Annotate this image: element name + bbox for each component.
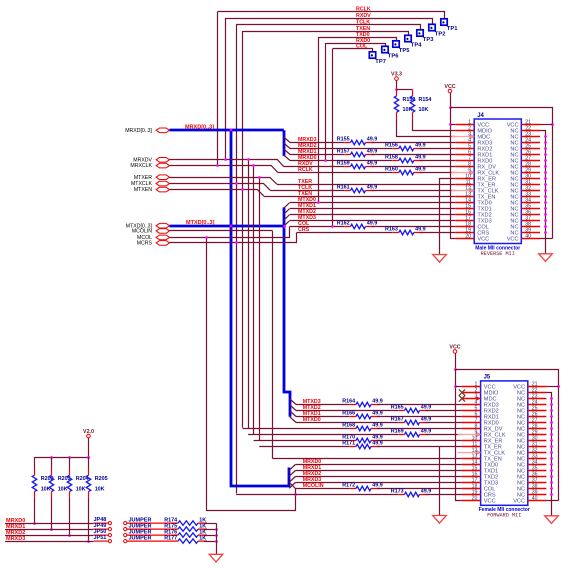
svg-text:MTXER: MTXER [134,175,152,181]
pin 9 clock stub [451,172,474,174]
wire MCRS jog up to CRS row [170,233,297,243]
svg-text:40: 40 [532,496,538,502]
wire row pin13 to stub [264,196,456,198]
junction VCC female pin21 [557,385,560,388]
resistor R168 49.9 [342,423,383,431]
bus junction 2 [230,225,233,228]
pin 29 stub [521,172,540,174]
wire female row pin11 [259,446,350,448]
svg-text:49.9: 49.9 [415,227,426,233]
pin 2 stub [455,130,474,132]
wire female row pin10 to stub [377,440,462,442]
wire VCC female to pin1/pin20 [456,369,462,501]
junction jumper gnd net [215,534,218,537]
pin 18 stub [455,226,474,228]
pin 28 stub [528,428,547,430]
svg-text:TP6: TP6 [388,53,399,59]
resistor R152 10K [394,90,415,119]
svg-text:MCOLIN: MCOLIN [132,229,152,235]
wire pin21 to VCC loop [540,124,553,126]
junction NC pin 36 [544,213,547,216]
test point TP2 [429,24,446,37]
wire MTXCLK to TCLK row [170,184,271,191]
svg-text:TP1: TP1 [447,26,458,32]
svg-text:R169: R169 [391,429,404,435]
pin 20 stub [455,238,474,240]
resistor R165 49.9 [391,405,432,413]
port MRXCLK [156,163,169,168]
junction MRXD0 row [33,522,36,525]
wire V2.0 down [88,438,90,457]
svg-text:TP4: TP4 [411,42,422,48]
test point TP1 [441,19,458,32]
wire row pin4 to stub [372,142,456,144]
svg-text:MCOLIN: MCOLIN [303,483,324,489]
pin 34 stub [528,464,547,466]
wire female row pin16 to stub [295,476,461,478]
wire R205 to MRXD3 row [88,498,90,541]
junction NC female pin 23 [550,397,553,400]
pin 35 stub [521,208,540,210]
wire female row pin9 [248,434,398,436]
svg-text:FORWARD MII: FORWARD MII [487,513,521,519]
junction NC pin 35 [544,207,547,210]
port MTXER [156,175,169,180]
wire NC bus female right [546,393,551,516]
svg-text:R156: R156 [385,143,398,149]
bus entry female MTXD2 [290,405,296,411]
wire R202 to MRXD0 row [34,498,36,523]
pin 36 stub [528,476,547,478]
wire R176 to gnd net [204,535,216,537]
wire R154 to MDIO pin2 [413,119,456,131]
pin 37 stub [521,220,540,222]
wire MCOL branch down to R173 row and MCOLIN row [207,237,296,510]
pin 26 stub [521,154,540,156]
wire female TX_ER to ground [439,447,441,516]
pin 20 stub [462,500,481,502]
svg-text:10K: 10K [58,486,68,492]
junction NC female pin 37 [550,481,553,484]
svg-text:49.9: 49.9 [372,441,383,447]
junction NC female pin 36 [550,475,553,478]
wire to pin40 stub [540,238,553,240]
wire rail to R205 [88,457,90,469]
wire jumper net to ground [216,523,218,554]
svg-text:RCLK: RCLK [298,167,313,173]
port MCRS [156,241,169,246]
svg-text:R172: R172 [342,483,355,489]
junction NC pin 32 [544,189,547,192]
wire row pin5 [290,148,393,150]
port MTXCLK [156,181,169,186]
pin 3 stub [462,398,481,400]
pin 4 stub [462,404,481,406]
junction TXD0 row [317,201,320,204]
ground male left [433,255,447,263]
resistor R155 49.9 [337,137,378,145]
svg-text:R177: R177 [164,535,177,541]
wire R204 to MRXD2 row [69,498,71,535]
svg-text:TP7: TP7 [375,59,386,65]
wire MCOL jog up to COL row [170,227,290,238]
pin 15 stub [455,208,474,210]
svg-text:R162: R162 [337,221,350,227]
junction NC female pin 27 [550,421,553,424]
power V3.3 [391,72,402,81]
ground female right [545,516,559,524]
wire row pin4 [290,142,344,144]
resistor R166 49.9 [342,411,383,419]
svg-text:VCC: VCC [477,237,489,243]
wire TXD0 to TP5 [318,38,396,42]
wire MRXD1 row bottom [5,529,93,531]
power V2.0 [83,429,94,438]
svg-text:TP2: TP2 [435,31,446,37]
wire row pin18 to stub [372,226,456,228]
junction NC female pin 29 [550,433,553,436]
junction VCC pin21 [551,123,554,126]
wire row pin19 [297,232,393,234]
resistor R164 49.9 [342,399,383,407]
junction NC female pin 38 [550,487,553,490]
svg-text:TP5: TP5 [399,48,410,54]
ground jumpers [209,554,223,562]
junction jumper gnd net [215,528,218,531]
junction TCLK/MTXCLK [235,182,238,185]
pin 33 stub [521,196,540,198]
wire female row pin6 to stub [377,416,462,418]
junction RXD0 row [324,159,327,162]
resistor R176 1K [164,529,207,537]
resistor R154 10K [410,90,431,119]
svg-text:TCLK: TCLK [356,19,370,25]
svg-text:R168: R168 [342,423,355,429]
wire row pin16 to stub [290,214,455,216]
resistor R173 49.9 [391,489,432,497]
connector J5 (Female MII connector) [458,375,547,519]
pin 3 clock stub [451,136,474,138]
pin 31 stub [521,184,540,186]
svg-text:MRXCLK: MRXCLK [130,163,152,169]
jumper JP51 [93,535,111,543]
pin 1 stub [455,124,474,126]
svg-text:R161: R161 [337,185,350,191]
port MTXD[0..3] [156,223,169,228]
svg-text:49.9: 49.9 [372,423,383,429]
svg-text:49.9: 49.9 [372,399,383,405]
pin 2 stub [462,392,481,394]
pin 22 stub [528,392,547,394]
junction rail R204 [68,456,71,459]
wire female row pin7 to stub [426,422,462,424]
wire RXD0 vertical to RXD0 row [325,43,327,161]
wire to female pin1 stub [456,386,462,388]
pin 28 stub [521,166,540,168]
wire female row pin8 to stub [377,428,462,430]
wire rail to R203 [51,457,53,469]
svg-text:10K: 10K [419,107,429,113]
wire row pin14 to stub [290,202,455,204]
pin 13 stub [462,458,481,460]
svg-text:49.9: 49.9 [367,137,378,143]
junction NC female pin 25 [550,409,553,412]
wire VCC female loop to pin40 [456,370,559,501]
svg-text:MRXD3: MRXD3 [6,536,25,542]
junction NC pin 31 [544,183,547,186]
resistor R203 10K [49,469,70,498]
junction NC female pin 31 [550,445,553,448]
svg-text:JP51: JP51 [94,535,107,541]
svg-text:COL: COL [356,44,368,50]
junction NC female pin 24 [550,403,553,406]
wire female row pin4 to stub [377,404,462,406]
wire pin10 RX_ER to ground [440,179,456,255]
svg-text:R158: R158 [385,155,398,161]
bus entry female MCOLIN [289,482,295,488]
pin 32 stub [528,452,547,454]
pin 38 stub [521,226,540,228]
wire MRXD0 row bottom [5,523,93,525]
wire female row pin4 [296,404,350,406]
jumper pin JUMPER row 3 [124,530,173,537]
bus entry female MRXD0 [289,465,295,471]
resistor R169 49.9 [391,429,432,437]
svg-text:REVERSE MII: REVERSE MII [481,251,515,257]
svg-text:R157: R157 [337,149,350,155]
junction MRXD1 row [50,528,53,531]
svg-text:40: 40 [525,234,531,240]
wire COL vertical to COL row [332,49,334,227]
pin 15 stub [462,470,481,472]
svg-text:20: 20 [465,234,471,240]
no-connect X pin 2 [459,389,465,395]
svg-text:10K: 10K [76,486,86,492]
wire row pin6 [290,154,344,156]
pin 1 stub [462,386,481,388]
wire NC bus male right [540,131,546,254]
svg-text:10K: 10K [95,486,105,492]
junction rail R205 [87,456,90,459]
pin 24 stub [521,142,540,144]
bus MRXD[0..3] [170,129,284,132]
port MRXD[0..3] [156,128,169,133]
pin 4 stub [455,142,474,144]
pin 35 stub [528,470,547,472]
pin 23 stub [528,398,547,400]
bus entry female MTXD0 [290,417,296,423]
junction NC pin 37 [544,219,547,222]
wire female row pin5 [296,410,398,412]
svg-text:R166: R166 [342,411,355,417]
junction NC female pin 28 [550,427,553,430]
wire female row pin19 to stub [426,494,462,496]
junction RXDV/MRXDV [224,158,227,161]
bus entry MRXD0 [284,155,290,161]
wire row pin19 to stub [420,232,456,234]
svg-text:49.9: 49.9 [421,405,432,411]
junction RCLK/MRXCLK [216,164,219,167]
jumper pin JUMPER row 1 [124,518,173,525]
pin 22 stub [521,130,540,132]
junction NC female pin 33 [550,457,553,460]
pin 40 stub [521,238,540,240]
wire TXEN long vertical [242,31,244,428]
resistor R170 49.9 [342,435,383,443]
resistor R163 49.9 [385,227,426,235]
pin 10 stub [455,178,474,180]
wire V3.3 to junction [396,80,398,89]
svg-text:49.9: 49.9 [367,221,378,227]
junction VCC female [454,368,457,371]
junction MCOL branch [205,236,208,239]
wire R174 to gnd net [204,523,216,525]
wire row pin9 to stub [420,172,456,174]
pin 11 stub [462,446,481,448]
no-connect X pin 3 [459,395,465,401]
svg-text:RXDV: RXDV [356,13,371,19]
wire TCLK to TP3 [236,25,420,31]
wire to pin1 stub [451,124,456,126]
svg-text:1K: 1K [199,535,206,541]
svg-text:49.9: 49.9 [421,417,432,423]
svg-text:MRXD[0..3]: MRXD[0..3] [125,128,152,134]
junction rail R203 [50,456,53,459]
svg-text:VCC: VCC [513,499,525,505]
wire MRXCLK to RCLK row [170,166,278,173]
wire female row pin15 to stub [295,470,461,472]
resistor R174 1K [164,517,207,525]
svg-text:R155: R155 [337,137,350,143]
wire row pin12 [270,190,344,192]
wire row pin15 to stub [290,208,455,210]
svg-text:RCLK: RCLK [356,6,371,12]
svg-text:20: 20 [472,496,478,502]
pin 39 stub [528,494,547,496]
pin 37 stub [528,482,547,484]
svg-text:MTXEN: MTXEN [134,187,152,193]
port MCOLIN [156,229,169,234]
svg-text:R154: R154 [419,97,432,103]
pin 26 stub [528,416,547,418]
pin 17 stub [462,482,481,484]
bus vertical right top [283,130,286,156]
junction NC pin 39 [544,231,547,234]
wire row pin18 [290,226,345,228]
svg-text:49.9: 49.9 [367,161,378,167]
bus entry female MTXD1 [290,411,296,417]
pin 40 stub [528,500,547,502]
pin 25 stub [521,148,540,150]
bus entry female MRXD2 [289,477,295,483]
bus entry female MTXD3 [290,399,296,405]
wire R152 to MDC pin3 [397,119,456,137]
wire VCC down [450,93,452,108]
wire female row pin9 to stub [426,434,462,436]
junction MRXDV branch [247,158,250,161]
resistor R167 49.9 [391,417,432,425]
wire to R154 top [397,89,413,91]
pin 38 stub [528,488,547,490]
junction TCLK/MCRS [235,241,238,244]
pin 19 stub [455,232,474,234]
pin 19 stub [462,494,481,496]
junction COL row [331,225,334,228]
junction V3.3 [395,88,398,91]
pin 32 stub [521,190,540,192]
wire MCOLIN [170,230,273,232]
wire MTXEN to TXEN row [170,190,264,197]
resistor R172 49.9 [342,483,383,491]
wire to female pin40 stub [546,500,558,502]
bus entry MTXD2 [284,215,290,221]
wire row pin6 to stub [372,154,456,156]
wire female row pin10 [254,440,350,442]
svg-text:R167: R167 [391,417,404,423]
svg-text:49.9: 49.9 [372,483,383,489]
svg-text:R173: R173 [391,489,404,495]
ground male right [539,254,553,262]
bus entry MTXD0 [284,203,290,209]
junction NC female pin 34 [550,463,553,466]
bus entry female MRXD1 [289,471,295,477]
pin 23 stub [521,136,540,138]
svg-text:R159: R159 [337,161,350,167]
svg-text:V3.3: V3.3 [391,72,402,78]
svg-text:R171: R171 [342,441,355,447]
wire rail to R202 [34,457,36,469]
pin 5 stub [455,148,474,150]
svg-text:49.9: 49.9 [372,411,383,417]
svg-text:MTXD0: MTXD0 [303,417,321,423]
pin 24 stub [528,404,547,406]
pin 16 stub [462,476,481,478]
pin 6 stub [462,416,481,418]
svg-text:VCC: VCC [507,237,519,243]
wire MRXD2 row bottom [5,535,93,537]
wire MCOLIN down to female TX_EN row [272,231,274,459]
test point TP4 [405,35,422,48]
bus entry MTXD3 [284,221,290,227]
jumper pin JUMPER row 4 [124,536,173,543]
svg-text:49.9: 49.9 [421,429,432,435]
junction COL row bus [283,225,286,228]
svg-text:TP3: TP3 [423,37,434,43]
wire row pin7 [290,160,393,162]
svg-text:49.9: 49.9 [415,155,426,161]
bus vertical right lower [284,207,290,416]
wire female row pin6 [296,416,350,418]
pin 8 stub [455,166,474,168]
pin 7 stub [462,422,481,424]
pin 12 clock stub [451,190,474,192]
resistor R175 1K [164,523,207,531]
svg-text:VCC: VCC [449,344,460,350]
bus entry MRXD3 [284,137,290,143]
wire TCLK long vertical [236,25,238,494]
junction NC pin 25 [544,147,547,150]
wire row pin8 to stub [372,166,456,168]
junction MRXD3 row [87,540,90,543]
junction VCC pin1 [449,123,452,126]
pin 8 stub [462,428,481,430]
wire female row pin8 [243,428,350,430]
resistor R157 49.9 [337,149,378,157]
svg-text:MCRS: MCRS [137,241,153,247]
wire row pin12 to stub [372,190,456,192]
pin 29 stub [528,434,547,436]
wire female row pin19 [236,494,398,496]
